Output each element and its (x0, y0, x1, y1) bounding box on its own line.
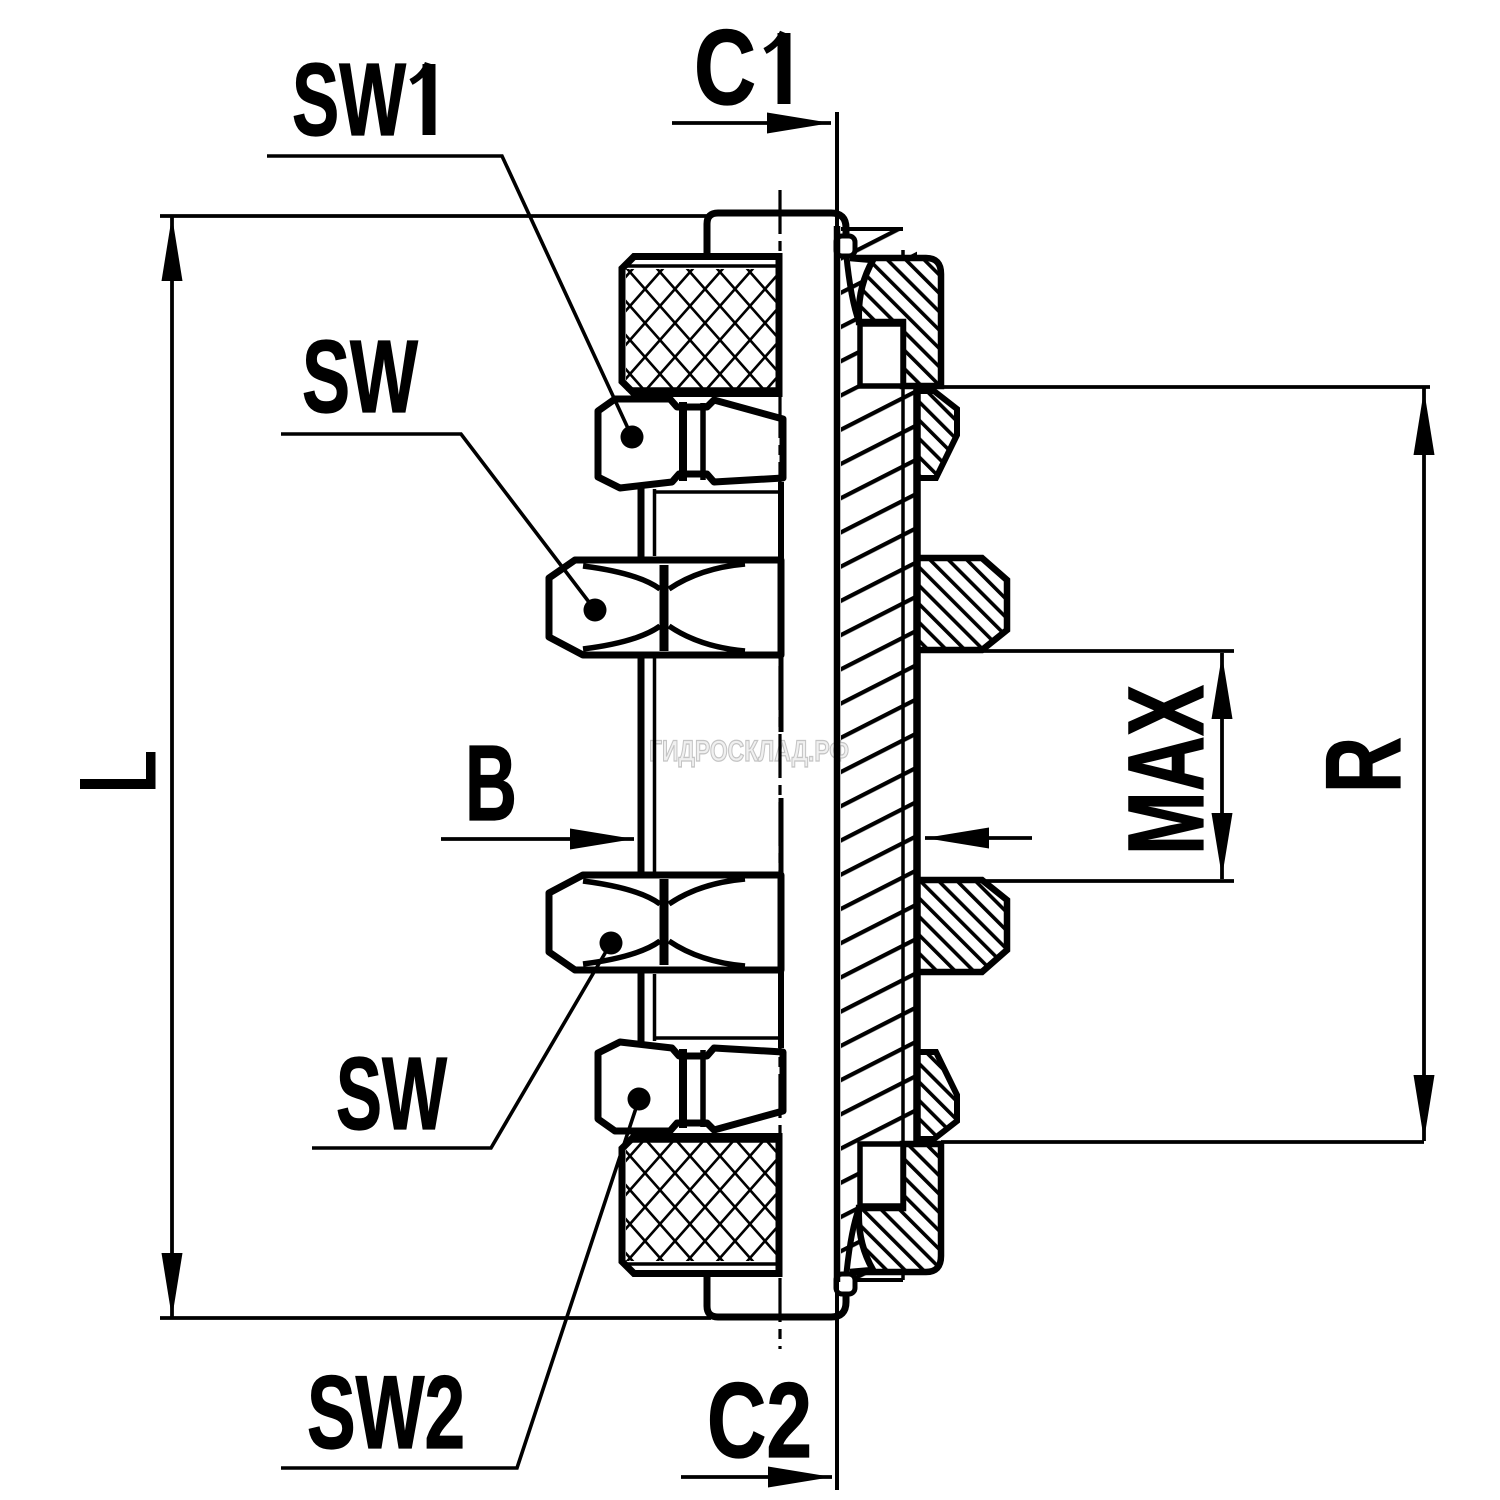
arrow L up (162, 216, 183, 281)
svg-text:ГИДРОСКЛАД.РФ: ГИДРОСКЛАД.РФ (649, 735, 849, 768)
svg-text:SW: SW (336, 1036, 448, 1151)
arrow L down (162, 1253, 183, 1318)
svg-text:MAX: MAX (1105, 685, 1226, 855)
knurled nut bottom (622, 1137, 779, 1274)
leader SW1 (267, 156, 632, 437)
retaining ring top (836, 236, 855, 256)
dimension MAX bottom line (973, 879, 1234, 883)
arrow C2 (768, 1467, 832, 1488)
locknut bottom-right section U2 (846, 1144, 941, 1278)
dimension R top line (941, 385, 1430, 389)
svg-text:R: R (1303, 737, 1423, 793)
nut ring mid-upper-right section (917, 558, 1007, 650)
plate right silhouette (913, 388, 921, 1142)
dimension B right line (925, 836, 1032, 840)
washer ring lower-right section (917, 1052, 957, 1139)
hex nut SW1 (598, 399, 783, 488)
arrow MAX up (1212, 655, 1233, 719)
svg-text:B: B (465, 722, 517, 843)
svg-text:SW: SW (292, 42, 407, 157)
dimension C1 line (672, 121, 831, 125)
tube stub bottom (707, 1274, 846, 1317)
svg-text:SW2: SW2 (307, 1355, 465, 1471)
arrow R up (1414, 390, 1435, 455)
arrow B right (925, 828, 989, 849)
dimension B left line (441, 837, 634, 841)
hex nut SW lower (549, 875, 781, 970)
arrow C1 (767, 113, 831, 134)
svg-text:C: C (694, 7, 756, 127)
extension line panel face (835, 112, 839, 1490)
tube stub top (707, 213, 846, 256)
dimension L bottom line (160, 1316, 711, 1320)
body neck 3 (638, 972, 645, 1044)
leader SW2 (281, 1099, 639, 1468)
label L (80, 752, 156, 789)
nut ring mid-lower-right section (917, 880, 1007, 972)
dimension C2 line (681, 1475, 832, 1479)
window groove top-right (860, 324, 903, 386)
hex nut SW2 (598, 1042, 783, 1131)
leader SW lower (312, 943, 611, 1148)
svg-text:SW: SW (302, 319, 419, 434)
dimension R bottom line (941, 1140, 1424, 1144)
body neck middle (638, 654, 645, 876)
body neck 1 (638, 486, 645, 558)
locknut top-right section U1 (846, 252, 941, 386)
plate thread line (901, 250, 905, 1280)
hex nut SW upper (549, 560, 781, 655)
washer ring upper-right section (917, 391, 957, 478)
dimension MAX vertical (1220, 653, 1224, 879)
knurled nut top (622, 257, 779, 394)
retaining ring bottom (836, 1274, 855, 1294)
centerline axis (778, 190, 781, 1349)
dimension L top line (160, 214, 711, 218)
arrow B left (570, 829, 634, 850)
dimension R vertical (1422, 388, 1426, 1141)
arrow R down (1414, 1075, 1435, 1140)
dimension MAX top line (973, 649, 1234, 653)
leader SW upper (281, 434, 595, 610)
panel plate section (hatched) (841, 229, 917, 1280)
arrow MAX down (1212, 813, 1233, 877)
window groove bottom-right (860, 1144, 903, 1206)
svg-text:C2: C2 (707, 1360, 812, 1480)
dimension L vertical (170, 216, 174, 1318)
